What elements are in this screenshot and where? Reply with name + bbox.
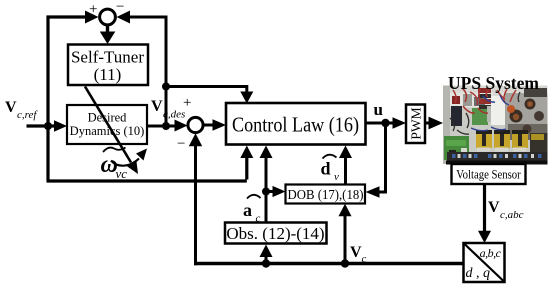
- arrowhead into Self-Tuner: [100, 32, 116, 45]
- svg-text:Control Law (16): Control Law (16): [232, 113, 359, 137]
- node Vc,ref input label: [5, 99, 38, 121]
- wire u feedback to DOB: [379, 122, 387, 192]
- summing junction S1: [100, 9, 116, 25]
- arrowhead ac into Control Law bottom: [260, 146, 273, 159]
- junction dot vcdes on line: [162, 122, 170, 130]
- arrowhead into sum2: [175, 120, 188, 132]
- block Self-Tuner (11): [68, 45, 148, 86]
- svg-text:V: V: [488, 199, 500, 216]
- wire sensor to abc/dq: [483, 184, 486, 232]
- wire vcref feedforward L-path: [47, 125, 247, 181]
- block Control Law (16): [226, 103, 366, 145]
- arrowhead into Control Law left: [213, 119, 227, 131]
- svg-text:d: d: [321, 159, 331, 179]
- wire vcdes horizontal: [147, 125, 175, 128]
- wire vcdes branch to Control Law top: [166, 85, 247, 93]
- arrowhead into abc/dq top: [478, 231, 491, 243]
- transformer row: [476, 130, 492, 148]
- svg-text:−: −: [177, 136, 185, 152]
- block DOB (17),(18): [286, 185, 366, 204]
- UPS photo: [443, 86, 548, 165]
- wire S2 to Control Law: [204, 124, 214, 127]
- terminal strip: [477, 148, 490, 152]
- block Desired Dynamics (10): [67, 105, 147, 144]
- svg-text:−: −: [116, 0, 124, 15]
- arrowhead plus into sum1: [85, 11, 99, 24]
- svg-text:V: V: [5, 99, 17, 116]
- label omega_vc with tilde: [101, 148, 128, 182]
- wire tuning diagonal arrow: [85, 87, 131, 163]
- arrowhead curved adjust: [136, 149, 147, 161]
- wire obs bottom stub: [265, 257, 268, 264]
- wire vcref input horizontal: [27, 124, 56, 127]
- svg-text:Voltage Sensor: Voltage Sensor: [456, 167, 521, 182]
- wire minus vertical from bottom line: [194, 146, 197, 265]
- arrowhead into Control Law top: [240, 92, 253, 104]
- arrowhead up into Obs: [260, 245, 273, 258]
- label dv hat: [321, 155, 340, 183]
- svg-text:c: c: [362, 253, 367, 265]
- arrowhead into PWM: [393, 117, 407, 129]
- svg-text:a: a: [243, 200, 252, 220]
- junction dot vcdes upper: [162, 83, 170, 91]
- wire PWM to UPS: [425, 122, 429, 125]
- wire dv hat vertical DOB to Control Law: [344, 158, 347, 186]
- arrowhead into DOB left: [273, 186, 286, 197]
- arrowhead dv into Control Law bottom: [339, 146, 352, 159]
- svg-text:Self-Tuner: Self-Tuner: [71, 48, 144, 67]
- wire vc bottom feedback: [194, 262, 464, 266]
- svg-text:Obs. (12)-(14): Obs. (12)-(14): [226, 224, 324, 243]
- svg-text:+: +: [89, 2, 97, 18]
- wire curved adjust arrow: [111, 159, 139, 166]
- svg-text:d , q: d , q: [466, 266, 491, 281]
- wire stem S1 to Self-Tuner: [106, 25, 109, 34]
- arrowhead up into S2: [189, 133, 202, 146]
- label vc: [350, 244, 367, 265]
- wire vc up to DOB: [344, 216, 347, 265]
- svg-text:u: u: [374, 100, 383, 119]
- svg-text:Dynamics (10): Dynamics (10): [70, 124, 145, 138]
- svg-text:V: V: [151, 98, 163, 115]
- wire ac hat vertical Obs to Control Law: [265, 158, 268, 223]
- arrowhead up into DOB bottom: [339, 204, 352, 217]
- label Vc,abc: [488, 199, 524, 221]
- block Obs. (12)-(14): [225, 223, 327, 244]
- wires red: [453, 88, 516, 113]
- wire vertical vcdes to top: [165, 16, 168, 127]
- block Voltage Sensor: [452, 164, 526, 184]
- svg-text:v: v: [334, 171, 339, 183]
- svg-text:c,abc: c,abc: [500, 209, 524, 221]
- svg-text:PWM: PWM: [409, 107, 424, 139]
- wire vcref up branch: [46, 17, 86, 128]
- svg-text:UPS System: UPS System: [448, 73, 539, 93]
- svg-text:c,des: c,des: [163, 109, 185, 121]
- block abc/dq transform: [464, 243, 505, 282]
- junction dot obs branch: [262, 259, 270, 267]
- junction dot vc branch: [341, 259, 349, 267]
- junction dot vcref: [44, 122, 52, 130]
- label Vc,des: [151, 98, 185, 121]
- summing junction S2: [188, 117, 203, 132]
- svg-text:+: +: [183, 95, 191, 111]
- arrowhead into Desired Dynamics: [54, 120, 67, 132]
- wire minus feedback top: [128, 16, 168, 19]
- label ac hat: [243, 195, 261, 225]
- arrowhead into DOB right: [366, 186, 380, 198]
- wire u output: [366, 122, 394, 125]
- arrowhead feedforward into Control Law bottom: [240, 146, 253, 159]
- svg-text:(11): (11): [94, 65, 122, 84]
- svg-text:a,b,c: a,b,c: [480, 246, 502, 260]
- block PWM: [406, 105, 425, 144]
- arrowhead minus into sum1: [117, 11, 131, 24]
- junction dot ac branch: [262, 188, 270, 196]
- svg-text:V: V: [350, 244, 362, 261]
- svg-text:c,ref: c,ref: [17, 109, 38, 121]
- arrowhead tuning diagonal: [126, 160, 138, 174]
- svg-text:vc: vc: [116, 166, 128, 181]
- junction dot u: [381, 119, 389, 127]
- svg-text:DOB (17),(18): DOB (17),(18): [288, 187, 364, 202]
- arrowhead into UPS photo: [429, 117, 444, 130]
- wire ac branch to DOB: [266, 190, 273, 193]
